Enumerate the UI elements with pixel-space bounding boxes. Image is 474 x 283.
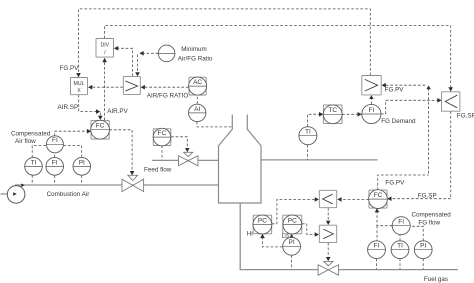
wire FG.SP from low selector to fuel FC (391, 111, 451, 198)
minimum air/FG ratio setpoint (158, 45, 175, 62)
high selector (air demand) (123, 76, 140, 94)
FI air flow (46, 158, 64, 176)
wire TC to FG demand FI (342, 113, 358, 115)
feed pipe (152, 159, 219, 161)
wire feed FC to feed valve (171, 137, 187, 149)
TI outlet temperature (299, 127, 317, 145)
svg-text:TC: TC (328, 107, 337, 114)
svg-text:FI: FI (52, 137, 58, 144)
wire PI to compensated FG FI (410, 226, 423, 241)
flow arrow on air pipe (21, 184, 25, 187)
wire FC output to air valve (109, 130, 132, 172)
wire feed FC stub to feed pipe (161, 146, 163, 160)
PI fuel pressure (414, 241, 432, 259)
wire FG demand FI to fuel selector bottom (370, 99, 372, 105)
svg-text:FC: FC (158, 130, 167, 137)
svg-text:AIR/FG RATIO: AIR/FG RATIO (147, 93, 189, 100)
compensated air flow FI (46, 136, 63, 153)
svg-text:Lo: Lo (282, 233, 290, 240)
svg-text:Feed flow: Feed flow (144, 167, 172, 174)
FI fuel flow (368, 241, 386, 259)
svg-text:TI: TI (305, 129, 311, 136)
PI burner pressure (283, 237, 301, 255)
wire AC to air selector right (144, 86, 188, 88)
wire AIR.PV vertical into DIV bottom (104, 62, 106, 120)
wire burner PI to PC Hi (263, 237, 283, 247)
wire PI stub to air pipe (81, 175, 83, 184)
wire FG.PV riser to fuel selector right (428, 89, 430, 174)
PC Lo burner pressure controller (283, 215, 302, 234)
svg-text:AI: AI (194, 106, 200, 113)
wire TI stub to outlet line (306, 145, 308, 160)
svg-text:Minimum: Minimum (181, 46, 207, 53)
wire PC Lo to fuel high selector left (302, 224, 315, 235)
low selector (FG.SP, far right) (442, 92, 460, 111)
AI analyzer (189, 104, 206, 121)
wire TI stub to compensated FG FI (399, 235, 401, 241)
FI FG demand (362, 104, 381, 123)
svg-text:Air/FG Ratio: Air/FG Ratio (178, 55, 213, 62)
svg-text:AC: AC (193, 79, 202, 86)
FC air flow controller (91, 120, 110, 139)
TC temperature controller (323, 105, 342, 124)
wire PC Hi to cross selector left (272, 199, 316, 223)
wire AI to AC (196, 95, 198, 104)
svg-text:PI: PI (289, 239, 295, 246)
svg-text:FG.PV: FG.PV (60, 65, 80, 72)
svg-text:PI: PI (420, 243, 426, 250)
svg-text:FG.SP: FG.SP (457, 113, 474, 120)
wire DIV output to low selector top (104, 26, 450, 89)
cross limit low selector (bottom) (319, 190, 336, 207)
fuel gas control valve (318, 261, 339, 275)
wire fuel FI stub to fuel pipe (376, 259, 378, 270)
svg-text:FG.PV: FG.PV (385, 87, 405, 94)
svg-text:Compensated: Compensated (412, 211, 452, 218)
svg-text:FG.PV: FG.PV (385, 179, 405, 186)
wire fuel PI stub to fuel pipe (422, 259, 424, 270)
svg-text:TI: TI (397, 243, 403, 250)
svg-text:FI: FI (398, 219, 404, 226)
wire minimum ratio to air selector top (143, 52, 158, 54)
wire AI to furnace stack (197, 122, 232, 127)
wire FG.PV from fuel selector top to MUL (long top line) (79, 9, 371, 75)
svg-text:Hi: Hi (247, 231, 253, 238)
svg-text:FC: FC (374, 192, 383, 199)
wire cross selector to fuel high selector (327, 208, 329, 222)
feed control valve (179, 152, 198, 166)
svg-text:FC: FC (96, 123, 105, 130)
svg-text:FI: FI (369, 107, 375, 114)
wire TI to compensated air FI (32, 145, 46, 157)
wire air selector top to DIV right (118, 48, 133, 76)
TI air temperature (25, 158, 43, 176)
svg-text:Combustion Air: Combustion Air (47, 191, 90, 198)
svg-text:AIR.SP: AIR.SP (58, 104, 79, 111)
wire FG demand FI to low selector left (381, 100, 438, 114)
svg-text:PI: PI (79, 159, 85, 166)
fan (combustion air blower) (1, 186, 25, 204)
wire air selector output to MUL right (92, 86, 123, 88)
wire burner PI to PC Lo (291, 236, 293, 239)
MUL function block (71, 78, 88, 95)
DIV function block (96, 39, 114, 58)
wire fuel high selector to fuel valve (327, 243, 329, 258)
furnace outlet line (261, 159, 378, 161)
svg-text:DIV: DIV (100, 42, 109, 48)
svg-text:TI: TI (31, 159, 37, 166)
svg-text:PC: PC (288, 217, 297, 224)
svg-text:AIR.PV: AIR.PV (107, 108, 128, 115)
svg-text:PC: PC (258, 217, 267, 224)
svg-text:FG.SP: FG.SP (418, 192, 437, 199)
wire PI to compensated air FI (63, 145, 81, 157)
svg-text:Fuel gas: Fuel gas (424, 276, 448, 283)
svg-text:MUL: MUL (74, 81, 85, 87)
PC Hi burner pressure controller (253, 215, 272, 234)
fuel high selector (bottom) (319, 225, 336, 242)
wire FI to compensated air FI (54, 153, 56, 158)
high selector (fuel, top right) (362, 76, 381, 95)
FC fuel gas flow controller (369, 190, 388, 209)
wire fuel TI stub to fuel pipe (399, 259, 401, 270)
svg-text:Compensated: Compensated (11, 131, 51, 138)
svg-text:FI: FI (374, 243, 380, 250)
AC controller U-AC (189, 77, 207, 95)
combustion air pipe (15, 184, 219, 186)
wire AIR.SP from MUL to FC top (79, 95, 96, 112)
TI fuel temperature (391, 241, 409, 259)
wire fuel FC output to cross selector right (341, 198, 369, 200)
wire compensated FG FI to fuel FC bottom (377, 212, 392, 226)
wire burner PI stub to fuel pipe (291, 255, 293, 269)
combustion air control valve (122, 175, 144, 191)
wire TI stub to air pipe (31, 175, 33, 184)
wire FI stub to air pipe (54, 175, 56, 184)
PI air pressure (73, 158, 91, 176)
svg-text:Air flow: Air flow (15, 138, 36, 145)
wire compensated air FI to FC left (55, 131, 88, 136)
wire TI to TC (307, 114, 319, 127)
wire fuel FC top to FG.PV riser (378, 175, 429, 190)
svg-text:FG flow: FG flow (418, 219, 440, 226)
fuel gas pipe (240, 203, 458, 270)
svg-text:FI: FI (52, 159, 58, 166)
svg-text:FG Demand: FG Demand (381, 118, 416, 125)
FC feed flow controller (153, 128, 171, 146)
compensated FG flow FI (392, 217, 410, 235)
svg-text:X: X (77, 88, 81, 94)
furnace (219, 115, 262, 204)
